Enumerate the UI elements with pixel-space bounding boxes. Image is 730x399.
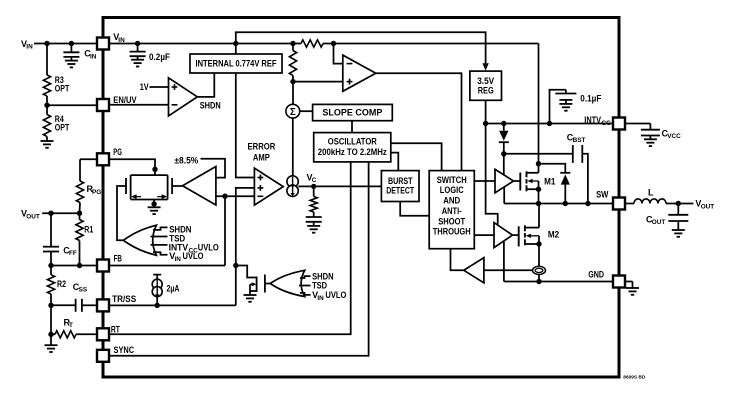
svg-text:OSCILLATOR: OSCILLATOR xyxy=(328,136,377,146)
svg-text:R2: R2 xyxy=(57,279,66,289)
svg-text:OUT: OUT xyxy=(701,203,715,210)
svg-text:OUT: OUT xyxy=(26,213,40,220)
svg-text:T: T xyxy=(69,322,73,329)
svg-text:SYNC: SYNC xyxy=(114,345,135,355)
svg-text:IN: IN xyxy=(90,53,97,60)
svg-text:3.5V: 3.5V xyxy=(477,76,494,86)
svg-text:UVLO: UVLO xyxy=(325,290,346,300)
svg-text:M1: M1 xyxy=(544,176,555,186)
svg-text:BST: BST xyxy=(573,137,586,144)
svg-text:OUT: OUT xyxy=(652,219,666,226)
svg-text:200kHz TO 2.2MHz: 200kHz TO 2.2MHz xyxy=(318,147,387,157)
svg-text:M2: M2 xyxy=(548,230,559,240)
svg-text:AND: AND xyxy=(443,196,460,206)
svg-text:INTV: INTV xyxy=(584,115,601,125)
svg-text:CC: CC xyxy=(602,120,612,127)
svg-text:LOGIC: LOGIC xyxy=(440,185,464,195)
svg-text:ERROR: ERROR xyxy=(248,141,276,151)
svg-text:SW: SW xyxy=(596,190,609,200)
svg-text:AMP: AMP xyxy=(253,152,270,162)
svg-text:SLOPE COMP: SLOPE COMP xyxy=(322,107,382,117)
svg-text:IN: IN xyxy=(175,256,182,263)
svg-text:OPT: OPT xyxy=(55,84,70,94)
svg-text:ANTI-: ANTI- xyxy=(442,206,462,216)
svg-text:SHOOT: SHOOT xyxy=(438,216,465,226)
svg-text:INTERNAL 0.774V REF: INTERNAL 0.774V REF xyxy=(196,59,277,69)
svg-text:UVLO: UVLO xyxy=(183,251,204,261)
svg-text:RT: RT xyxy=(111,325,120,335)
svg-text:VCC: VCC xyxy=(667,133,681,140)
svg-text:TR/SS: TR/SS xyxy=(112,294,136,304)
svg-text:OPT: OPT xyxy=(55,123,70,133)
svg-text:±8.5%: ±8.5% xyxy=(174,155,198,165)
svg-text:PG: PG xyxy=(113,147,122,157)
svg-text:THROUGH: THROUGH xyxy=(433,227,471,237)
svg-text:0.2µF: 0.2µF xyxy=(149,52,170,62)
svg-text:IN: IN xyxy=(26,44,33,51)
svg-text:R1: R1 xyxy=(84,225,93,235)
svg-text:SWITCH: SWITCH xyxy=(437,175,467,185)
svg-text:Σ: Σ xyxy=(290,107,296,118)
svg-text:1V: 1V xyxy=(140,82,149,92)
svg-text:C: C xyxy=(312,177,317,184)
svg-text:DETECT: DETECT xyxy=(386,185,414,195)
svg-text:0.1µF: 0.1µF xyxy=(580,94,601,104)
svg-text:PG: PG xyxy=(92,189,101,196)
svg-text:FB: FB xyxy=(114,254,123,264)
svg-text:L: L xyxy=(648,187,654,197)
svg-text:SHDN: SHDN xyxy=(200,101,221,111)
svg-text:8609S BD: 8609S BD xyxy=(623,375,646,380)
svg-text:SS: SS xyxy=(79,287,88,294)
svg-text:IN: IN xyxy=(118,37,125,44)
svg-text:EN/UV: EN/UV xyxy=(113,95,136,105)
svg-text:GND: GND xyxy=(588,270,604,280)
svg-text:2µA: 2µA xyxy=(167,283,180,293)
svg-text:REG: REG xyxy=(478,86,494,96)
svg-text:FF: FF xyxy=(69,250,77,257)
svg-text:IN: IN xyxy=(317,295,324,302)
